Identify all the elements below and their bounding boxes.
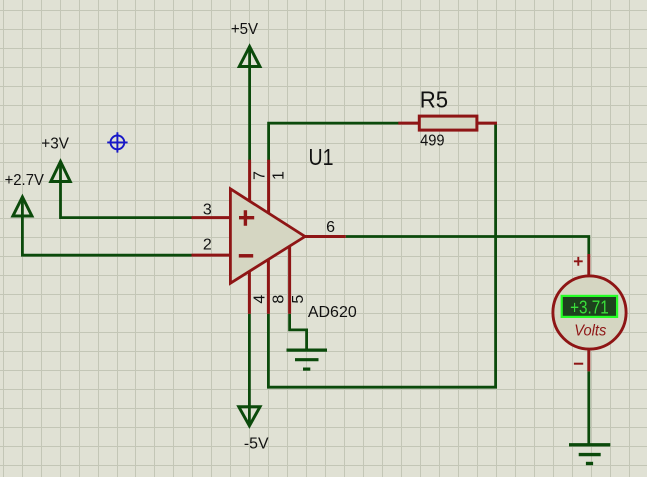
svg-text:6: 6 bbox=[326, 219, 335, 236]
wire pin 1 to R5 left bbox=[269, 123, 399, 160]
svg-text:U1: U1 bbox=[309, 144, 334, 170]
pin 4 stub bbox=[248, 272, 251, 314]
op-amp minus input mark bbox=[239, 254, 253, 258]
power +2.7V bbox=[13, 197, 32, 216]
voltmeter + terminal stub bbox=[587, 254, 590, 277]
resistor R5 body bbox=[419, 116, 477, 130]
svg-text:-5V: -5V bbox=[244, 436, 269, 453]
svg-text:+3.71: +3.71 bbox=[570, 297, 609, 317]
svg-text:Volts: Volts bbox=[574, 322, 606, 339]
pin 7 stub bbox=[248, 160, 251, 203]
pin 1 stub bbox=[267, 160, 270, 215]
svg-text:4: 4 bbox=[251, 295, 268, 304]
R5 left stub bbox=[398, 122, 419, 125]
wire pin 4 to -5V bbox=[248, 314, 251, 426]
svg-text:8: 8 bbox=[270, 295, 287, 304]
svg-text:1: 1 bbox=[271, 171, 288, 180]
svg-text:AD620: AD620 bbox=[308, 304, 357, 321]
wire +2.7V stem to pin 2 bbox=[22, 197, 191, 256]
pin 3 stub bbox=[192, 216, 232, 219]
power -5V bbox=[239, 407, 260, 426]
svg-text:7: 7 bbox=[252, 171, 269, 180]
svg-text:3: 3 bbox=[203, 201, 212, 218]
voltmeter plus label bbox=[574, 257, 583, 266]
pin 2 stub bbox=[192, 254, 232, 257]
power +5V bbox=[239, 47, 260, 67]
voltmeter LCD display bbox=[562, 296, 617, 317]
svg-text:+3V: +3V bbox=[41, 135, 69, 152]
origin marker (blue crosshair) bbox=[107, 132, 127, 152]
voltmeter minus label bbox=[574, 363, 583, 365]
op-amp U1 body bbox=[230, 189, 305, 283]
ground (op-amp reference) bbox=[287, 350, 328, 369]
power +3V bbox=[51, 162, 70, 182]
R5 right stub bbox=[478, 122, 498, 125]
voltmeter - terminal stub bbox=[587, 349, 590, 372]
svg-text:+2.7V: +2.7V bbox=[5, 172, 45, 189]
voltmeter body bbox=[553, 276, 626, 349]
pin 8 stub bbox=[267, 260, 270, 314]
op-amp plus input mark bbox=[239, 210, 254, 226]
ground (main) bbox=[569, 445, 610, 464]
wire R5 right feedback vertical bbox=[494, 123, 497, 387]
svg-text:+5V: +5V bbox=[231, 21, 259, 38]
svg-text:R5: R5 bbox=[420, 86, 448, 112]
svg-text:499: 499 bbox=[420, 133, 445, 150]
wire output pin 6 to voltmeter bbox=[346, 237, 589, 255]
wire +3V stem to pin 3 bbox=[61, 161, 192, 218]
wire pin 8 to bottom rail bbox=[268, 314, 497, 387]
svg-text:5: 5 bbox=[290, 295, 307, 304]
svg-text:2: 2 bbox=[203, 237, 212, 254]
wire voltmeter to ground bbox=[587, 371, 590, 444]
pin 6 stub bbox=[304, 235, 346, 238]
pin 5 stub bbox=[288, 247, 291, 314]
wire +5V stem to pin 7 bbox=[248, 46, 251, 161]
wire pin 5 to ground bbox=[290, 314, 307, 350]
